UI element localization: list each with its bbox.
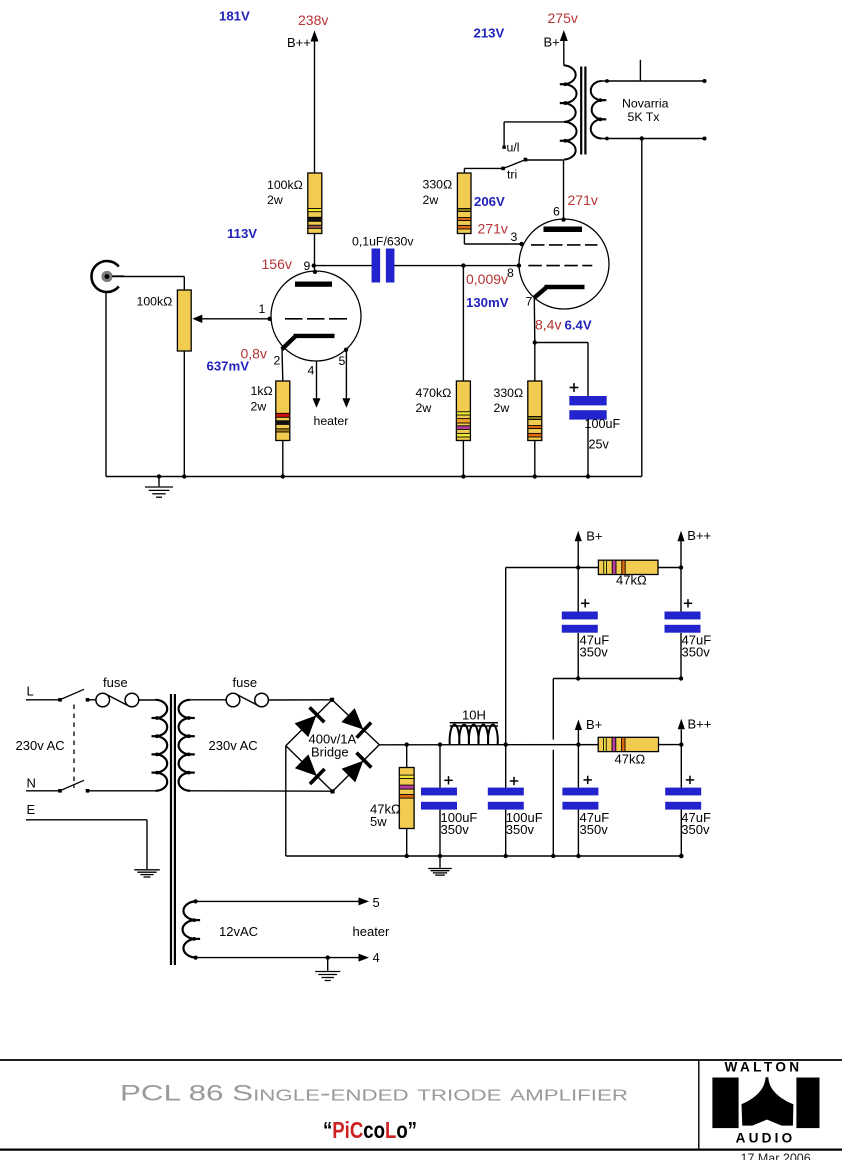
- svg-text:350v: 350v: [681, 822, 710, 837]
- svg-text:213V: 213V: [474, 26, 505, 41]
- svg-text:4: 4: [373, 950, 380, 965]
- svg-text:100kΩ: 100kΩ: [137, 295, 173, 309]
- svg-text:2w: 2w: [416, 401, 432, 415]
- svg-text:100uF: 100uF: [585, 417, 621, 431]
- svg-text:B+: B+: [586, 529, 602, 544]
- svg-text:B++: B++: [687, 528, 711, 543]
- svg-text:5w: 5w: [370, 814, 387, 829]
- svg-text:2w: 2w: [267, 193, 283, 207]
- svg-text:0,1uF/630v: 0,1uF/630v: [352, 235, 414, 249]
- svg-text:6.4V: 6.4V: [565, 318, 592, 333]
- svg-text:7: 7: [526, 295, 533, 309]
- svg-text:4: 4: [308, 364, 315, 378]
- svg-text:fuse: fuse: [103, 675, 128, 690]
- svg-text:181V: 181V: [219, 9, 250, 24]
- svg-text:1: 1: [259, 302, 266, 316]
- svg-text:113V: 113V: [227, 226, 257, 241]
- svg-text:2w: 2w: [423, 193, 439, 207]
- svg-text:350v: 350v: [506, 822, 535, 837]
- svg-text:0,009v: 0,009v: [466, 271, 508, 287]
- svg-text:Novarria: Novarria: [622, 97, 669, 111]
- svg-text:tri: tri: [507, 168, 517, 182]
- svg-text:206V: 206V: [474, 194, 505, 209]
- svg-text:330Ω: 330Ω: [423, 178, 453, 192]
- svg-text:470kΩ: 470kΩ: [416, 386, 452, 400]
- svg-text:330Ω: 330Ω: [494, 386, 524, 400]
- svg-text:271v: 271v: [478, 221, 508, 237]
- svg-text:47kΩ: 47kΩ: [615, 752, 646, 767]
- svg-text:238v: 238v: [298, 12, 328, 28]
- svg-text:heater: heater: [314, 414, 349, 428]
- svg-text:156v: 156v: [262, 256, 292, 272]
- svg-text:2w: 2w: [494, 401, 510, 415]
- svg-text:B+: B+: [544, 35, 560, 50]
- svg-text:5: 5: [339, 354, 346, 368]
- svg-text:8: 8: [507, 266, 514, 280]
- svg-text:47kΩ: 47kΩ: [616, 573, 647, 588]
- svg-text:8,4v: 8,4v: [535, 317, 561, 333]
- svg-text:Bridge: Bridge: [311, 745, 349, 760]
- svg-text:350v: 350v: [580, 822, 609, 837]
- svg-text:fuse: fuse: [233, 675, 258, 690]
- svg-text:350v: 350v: [441, 822, 470, 837]
- svg-text:17 Mar 2006: 17 Mar 2006: [741, 1152, 811, 1160]
- svg-text:271v: 271v: [568, 192, 598, 208]
- svg-text:350v: 350v: [580, 645, 609, 660]
- svg-text:12vAC: 12vAC: [219, 924, 258, 939]
- svg-text:heater: heater: [353, 924, 391, 939]
- svg-text:2w: 2w: [251, 400, 267, 414]
- svg-text:L: L: [27, 684, 34, 699]
- svg-text:WALTON: WALTON: [724, 1060, 802, 1075]
- svg-text:10H: 10H: [462, 708, 486, 723]
- svg-text:B+: B+: [586, 717, 602, 732]
- svg-text:25v: 25v: [589, 438, 610, 452]
- svg-text:AUDIO: AUDIO: [736, 1131, 796, 1146]
- svg-text:637mV: 637mV: [207, 359, 250, 374]
- svg-text:275v: 275v: [548, 10, 578, 26]
- svg-text:6: 6: [553, 205, 560, 219]
- svg-text:3: 3: [511, 230, 518, 244]
- svg-text:230v AC: 230v AC: [209, 738, 258, 753]
- svg-text:N: N: [27, 776, 36, 791]
- svg-text:230v AC: 230v AC: [16, 738, 65, 753]
- svg-text:100kΩ: 100kΩ: [267, 178, 303, 192]
- svg-text:1kΩ: 1kΩ: [251, 384, 273, 398]
- svg-text:5K Tx: 5K Tx: [628, 110, 661, 124]
- svg-text:350v: 350v: [682, 645, 711, 660]
- svg-text:5: 5: [373, 895, 380, 910]
- svg-text:2: 2: [274, 354, 281, 368]
- svg-text:“PiCcoLo”: “PiCcoLo”: [323, 1117, 417, 1143]
- svg-text:u/l: u/l: [507, 141, 520, 155]
- svg-text:PCL 86 Single-ended triode amp: PCL 86 Single-ended triode amplifier: [120, 1081, 628, 1106]
- svg-text:E: E: [27, 802, 36, 817]
- svg-text:130mV: 130mV: [466, 295, 509, 310]
- svg-text:B++: B++: [688, 717, 712, 732]
- svg-text:B++: B++: [287, 35, 311, 50]
